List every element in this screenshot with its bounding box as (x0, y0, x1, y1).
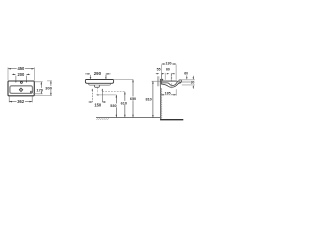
svg-text:362: 362 (17, 99, 25, 104)
rim-top reference to 650 (114, 79, 133, 81)
hole marker arrows on rim (15, 76, 27, 83)
drain stub (95, 85, 100, 87)
tap hole (20, 81, 22, 83)
dim 300 (50, 81, 52, 96)
drain symbol (19, 88, 22, 91)
floor line (96, 117, 160, 119)
dim 130 ext lines (162, 65, 176, 81)
drain axis (96, 88, 98, 94)
svg-text:610: 610 (121, 101, 127, 105)
810 top reference (152, 80, 161, 82)
dim 280 (arrows outside) (85, 73, 111, 75)
dim line 810 (152, 81, 154, 117)
rear ledge (cut) (160, 79, 163, 81)
svg-text:200: 200 (17, 72, 25, 77)
dim 360 extension lines (9, 96, 32, 102)
floor hatching (97, 118, 109, 120)
dim 360 (9, 101, 32, 103)
svg-text:150: 150 (94, 102, 102, 107)
nose-bottom ext right (182, 84, 195, 86)
front nose knob (179, 80, 182, 82)
dim 450 extension lines (8, 67, 34, 80)
dim 200 (arrows outside) (12, 74, 30, 76)
basin outer rim (plan) (8, 81, 34, 96)
bowl underside bulge (88, 83, 111, 85)
tap hole axis (171, 74, 173, 90)
nose hook (179, 82, 181, 83)
svg-text:185: 185 (165, 92, 171, 96)
ref line 610 (102, 91, 125, 93)
dim 150 (89, 89, 107, 103)
wall line (160, 79, 162, 119)
dims 55 / 60 arrows (156, 73, 175, 74)
dim line 650 (132, 80, 134, 118)
svg-text:170: 170 (36, 87, 43, 92)
dim line 530 (116, 95, 118, 117)
dim 30 arrows (193, 76, 194, 89)
bowl outer shell (161, 83, 179, 87)
svg-text:55: 55 (157, 68, 161, 72)
basin body front (85, 80, 113, 84)
dim line 610 (124, 92, 126, 118)
dim 170 (41, 82, 43, 94)
wall bolts behind (158, 76, 159, 86)
svg-text:810: 810 (145, 97, 151, 101)
floor line right (160, 119, 183, 121)
svg-text:130: 130 (166, 62, 172, 66)
dim 185 (161, 94, 176, 95)
rear inner edge (160, 82, 162, 85)
inner ledge + bowl inner (161, 81, 178, 85)
dim 450 (8, 68, 34, 70)
svg-text:60: 60 (184, 72, 188, 76)
55/60 ext lines (161, 73, 171, 81)
svg-text:530: 530 (110, 104, 116, 108)
overflow mark (30, 91, 32, 93)
rim top line (161, 80, 178, 82)
dim 170 extension lines (33, 82, 43, 94)
dim 130 (162, 63, 176, 64)
svg-text:300: 300 (45, 85, 52, 90)
dim 185 ext (175, 89, 177, 95)
basin bowl (plan inner) (10, 86, 33, 94)
ref line 530 (98, 94, 116, 96)
ext line right of 280 (105, 73, 107, 79)
dim 60 arrow (right) (186, 75, 187, 79)
fixing hole arrows on body (90, 75, 107, 80)
svg-text:450: 450 (17, 66, 25, 71)
rim-top ext right (179, 79, 195, 81)
svg-text:650: 650 (130, 97, 136, 101)
wall hatching (161, 88, 162, 119)
svg-text:30: 30 (191, 80, 195, 84)
dim 300 extension lines (35, 81, 52, 96)
svg-text:60: 60 (166, 68, 170, 72)
svg-text:290: 290 (94, 71, 102, 76)
